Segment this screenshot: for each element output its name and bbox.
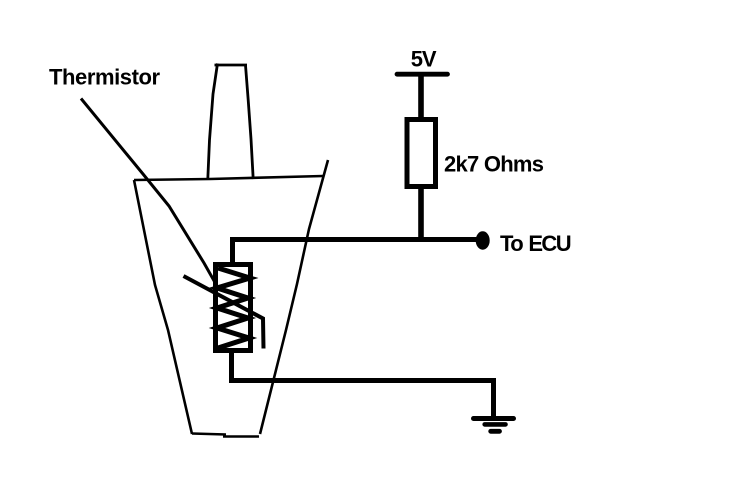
svg-text:5V: 5V: [411, 47, 437, 72]
5V supply terminal bar: [397, 72, 448, 77]
wire: 5V bar to resistor: [418, 76, 424, 119]
sensor body: bottom edge right part: [223, 435, 259, 438]
sensor body: right side: [260, 160, 328, 434]
sensor body: left side: [134, 180, 192, 434]
node: output junction dot: [476, 231, 490, 249]
ground bar 2: [485, 422, 506, 427]
sensor body: connector chimney top edge: [215, 64, 248, 67]
wire: resistor to output node: [418, 187, 424, 240]
ground bar 3: [491, 429, 500, 434]
sensor body: top edge: [134, 176, 323, 180]
stray stroke through thermistor with right tail: [184, 276, 264, 349]
sensor body: connector chimney right edge: [245, 64, 253, 179]
svg-text:2k7 Ohms: 2k7 Ohms: [444, 152, 544, 177]
thermistor body rectangle: [216, 265, 251, 351]
sensor body: bottom edge: [192, 434, 226, 435]
svg-text:To ECU: To ECU: [500, 231, 571, 256]
resistor R1 2k7 body: [407, 120, 436, 187]
thermistor zigzag element: [217, 268, 250, 348]
leader line from Thermistor label to thermistor: [81, 99, 217, 287]
sensor body: connector chimney left edge: [208, 64, 218, 180]
svg-text:Thermistor: Thermistor: [49, 65, 160, 90]
wire: thermistor top lead to output node: [233, 240, 478, 264]
wire: thermistor bottom lead to ground: [232, 352, 494, 416]
ground bar 1: [474, 416, 514, 421]
